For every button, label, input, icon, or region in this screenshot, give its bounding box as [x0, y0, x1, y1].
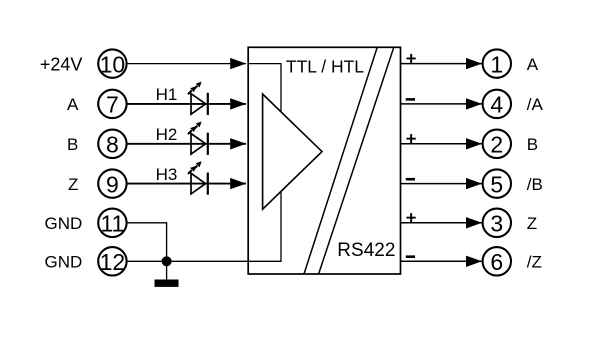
svg-text:/Z: /Z	[527, 253, 542, 272]
arrowhead Z into box	[230, 178, 246, 189]
terminal 12	[98, 247, 126, 275]
arrowhead pin 2	[466, 138, 482, 149]
terminal 11	[98, 209, 126, 237]
svg-text:/A: /A	[527, 95, 544, 114]
svg-text:B: B	[527, 135, 538, 154]
arrowhead pin 1	[466, 58, 482, 69]
svg-text:Z: Z	[68, 175, 78, 194]
svg-text:Z: Z	[527, 214, 537, 233]
svg-text:6: 6	[490, 249, 503, 275]
wire box to pin 3	[401, 222, 483, 224]
ground symbol	[155, 261, 179, 287]
svg-text:12: 12	[100, 249, 126, 275]
terminal 4	[483, 90, 511, 118]
svg-text:A: A	[67, 95, 79, 114]
arrowhead pin 5	[466, 178, 482, 189]
wire box to pin 4	[401, 103, 483, 105]
junction dot GND node	[162, 256, 172, 266]
arrowhead +24V into box	[230, 58, 246, 69]
wire GND 12 to box	[127, 260, 249, 262]
svg-text:9: 9	[106, 171, 119, 197]
svg-text:TTL / HTL: TTL / HTL	[286, 57, 364, 77]
svg-text:H1: H1	[156, 85, 178, 104]
svg-text:H3: H3	[156, 165, 178, 184]
terminal 6	[483, 247, 511, 275]
arrowhead A into box	[230, 98, 246, 109]
wire B to box	[127, 143, 246, 145]
polarity - (pin 4)	[406, 98, 415, 101]
terminal 7	[98, 90, 126, 118]
terminal 3	[483, 209, 511, 237]
svg-text:8: 8	[106, 132, 119, 158]
arrowhead pin 6	[466, 256, 482, 267]
svg-text:GND: GND	[45, 214, 83, 233]
polarity + (pin 3)	[407, 213, 416, 222]
isolation barrier line 1	[304, 47, 377, 274]
wire Z to box	[127, 183, 246, 185]
arrowhead pin 4	[466, 98, 482, 109]
converter box U1	[248, 47, 400, 274]
svg-text:10: 10	[100, 51, 126, 77]
polarity - (pin 5)	[406, 178, 415, 181]
svg-text:1: 1	[490, 51, 503, 77]
LED H1	[188, 82, 208, 115]
wire box to pin 6	[401, 260, 483, 262]
svg-text:GND: GND	[45, 253, 83, 272]
arrowhead B into box	[230, 138, 246, 149]
svg-text:3: 3	[490, 211, 503, 237]
driver triangle	[263, 94, 322, 209]
polarity - (pin 6)	[406, 255, 415, 258]
arrowhead pin 3	[466, 217, 482, 228]
isolation barrier line 2	[319, 47, 394, 274]
terminal 5	[483, 169, 511, 197]
polarity + (pin 1)	[407, 54, 416, 63]
wire +24V to box	[127, 63, 246, 65]
svg-text:/B: /B	[527, 175, 543, 194]
svg-text:A: A	[527, 55, 539, 74]
svg-text:H2: H2	[156, 125, 178, 144]
svg-text:11: 11	[100, 211, 124, 237]
svg-text:4: 4	[490, 92, 503, 118]
svg-text:RS422: RS422	[337, 240, 395, 261]
LED H3	[188, 161, 208, 194]
svg-text:7: 7	[106, 92, 119, 118]
wire A to box	[127, 103, 246, 105]
LED H2	[188, 122, 208, 155]
svg-text:B: B	[67, 135, 78, 154]
terminal 1	[483, 49, 511, 77]
wire GND 11 down to GND 12	[127, 223, 167, 261]
wire box to pin 2	[401, 143, 483, 145]
svg-text:+24V: +24V	[40, 55, 83, 75]
svg-text:5: 5	[490, 171, 503, 197]
polarity + (pin 2)	[407, 134, 416, 143]
terminal 10	[98, 49, 126, 77]
terminal 8	[98, 130, 126, 158]
wire box to pin 1	[401, 63, 483, 65]
terminal 9	[98, 169, 126, 197]
internal wire +24V/GND loop	[248, 64, 281, 262]
terminal 2	[483, 130, 511, 158]
svg-text:2: 2	[490, 132, 503, 158]
wire box to pin 5	[401, 183, 483, 185]
